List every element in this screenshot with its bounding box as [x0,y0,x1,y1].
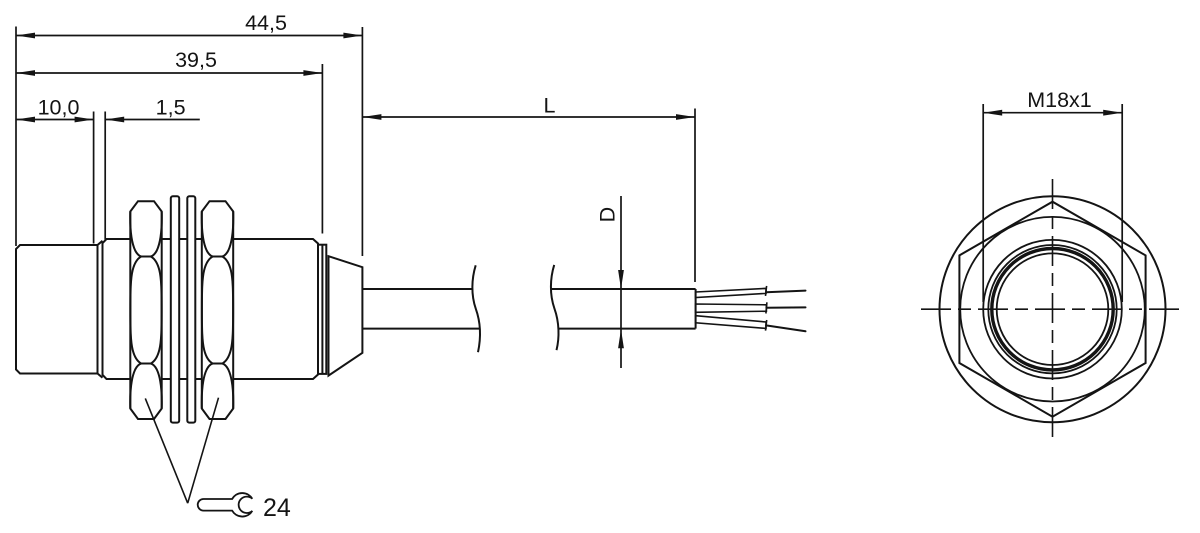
dimension 39,5 line [16,72,322,74]
arrow L right [676,114,695,120]
arrow M18 left [983,110,1002,116]
wire 1 insulation [696,288,766,297]
WIRES [696,286,806,331]
WRENCH-SYMBOL wrench size 24 [198,493,253,516]
step chamfer top [98,241,103,245]
front thread circle M18 [983,240,1122,379]
dimension L line [362,116,695,118]
arrow 39,5 right [303,70,322,76]
dimension 44,5 line [16,35,362,37]
dimension 10,0 line [16,119,94,121]
front inner face circle [997,253,1109,365]
arrow 1,5 pointing left [105,117,124,123]
extension line M18 right [1121,104,1123,302]
dimension M18x1 line [983,112,1122,114]
break curve 1 [472,265,480,352]
dimension 1,5 line [105,119,200,121]
cable end face [695,289,697,329]
wire 3 end tick [766,320,767,331]
dimension D lower shaft [620,329,622,368]
washer W1 [171,196,179,422]
centerline horizontal [921,308,1186,310]
threaded barrel [103,239,319,379]
wire 2 insulation [696,304,767,312]
FRONT-VIEW [921,104,1186,439]
sensor left cylinder [16,245,98,374]
arrow 44,5 left [16,33,35,39]
collar ring [318,245,326,374]
washer W2 [187,196,195,422]
svg-text:D: D [596,207,620,223]
nut N1 [130,201,162,419]
svg-text:39,5: 39,5 [175,48,217,72]
extension line 39,5 right x=322.4 [321,64,323,234]
arrow 44,5 right [343,33,362,39]
break curve 2 [551,265,559,350]
arrow L left [362,114,381,120]
svg-text:10,0: 10,0 [38,96,80,120]
svg-text:M18x1: M18x1 [1027,88,1092,112]
svg-text:1,5: 1,5 [156,96,186,120]
extension line 10,0 x=93.6 [93,112,95,244]
wire 2 end tick [766,302,767,313]
dimension D upper line [620,196,622,329]
svg-text:L: L [544,94,556,118]
DIMENSIONS-SIDE-VIEW [16,27,695,369]
leader line nut1 [145,398,187,503]
front nut chamfer circle [960,217,1145,402]
wire 1 conductor [766,291,806,293]
extension line 1,5 x=105.2 [104,112,106,240]
nut N2 [202,201,234,419]
cable segment1 top [362,288,472,290]
wire 3 conductor [766,325,806,331]
svg-text:44,5: 44,5 [245,11,287,35]
extension line 44,5/L x=362.4 [361,27,363,256]
extension line left face x=16 [15,27,17,247]
arrow M18 right [1103,110,1122,116]
front sensing face thick ring [992,249,1113,370]
centerline vertical [1052,179,1054,439]
extension line L right x=695 [694,109,696,283]
collar inner line [321,245,323,374]
arrow D down [618,270,624,289]
wire 1 end tick [766,286,767,296]
cable segment2 bottom [558,328,696,330]
arrow D up [618,329,624,348]
arrow 39,5 left [16,70,35,76]
step chamfer bottom [98,374,103,378]
cable segment1 bottom [362,328,480,330]
front hexagon nut [959,202,1145,417]
arrow 10,0 left [16,117,35,123]
wire 2 conductor [766,306,805,308]
leader line nut2 [188,398,219,504]
cable segment2 top [550,288,695,290]
wire 3 insulation [696,316,766,329]
front housing outer circle [940,196,1166,422]
svg-text:24: 24 [263,494,291,522]
rear cone [329,256,363,375]
extension line M18 left [982,104,984,302]
arrow 10,0 right [75,117,94,123]
front thread core circle [988,245,1116,373]
